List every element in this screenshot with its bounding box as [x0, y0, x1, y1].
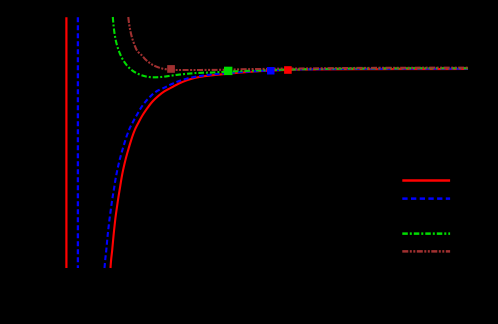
dark-red square marker	[167, 65, 175, 73]
blue curve (dashed)	[105, 69, 469, 268]
green curve (dash-dot)	[113, 17, 468, 77]
legend green dash-dot sample	[402, 232, 450, 235]
legend dark-red dash-dot-dot sample	[402, 250, 450, 253]
red curve pole (vertical asymptote line)	[65, 17, 67, 268]
blue curve pole (vertical dashed asymptote line)	[77, 17, 79, 268]
red square marker	[284, 66, 292, 74]
legend blue dashed sample	[402, 197, 450, 200]
blue square marker	[267, 67, 275, 75]
red curve (solid)	[111, 69, 469, 268]
legend red solid sample	[402, 179, 450, 182]
dark-red curve (dash-dot-dot)	[128, 17, 468, 70]
green square marker	[224, 67, 232, 75]
